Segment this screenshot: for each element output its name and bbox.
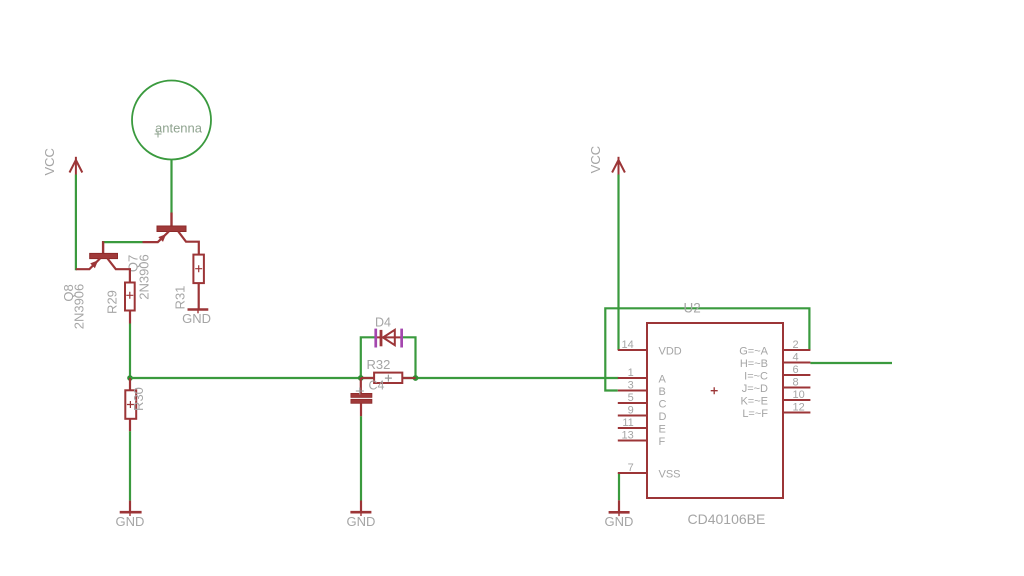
Q7 emitter arrow [158, 234, 166, 242]
resistor R32 [361, 373, 416, 383]
svg-text:1: 1 [628, 367, 634, 379]
wire C4 to ground [360, 416, 362, 500]
svg-text:4: 4 [793, 352, 799, 364]
wire VCC to Q8 emitter [75, 175, 77, 271]
svg-text:14: 14 [622, 339, 634, 351]
pin 12 L [742, 402, 810, 420]
svg-text:6: 6 [793, 364, 799, 376]
svg-text:G=~A: G=~A [739, 345, 768, 357]
svg-text:13: 13 [622, 430, 634, 442]
pin 8 J [742, 377, 811, 395]
Q8 base pin [102, 241, 104, 254]
transistor Q8 [76, 253, 130, 282]
pin 11 E [618, 417, 666, 435]
svg-text:U2: U2 [684, 301, 701, 316]
VCC symbol left [70, 157, 83, 175]
node junction D4 left [358, 375, 364, 381]
transistor Q7 [143, 213, 199, 255]
svg-text:C4: C4 [369, 378, 385, 392]
svg-text:2N3906: 2N3906 [137, 254, 152, 300]
svg-text:C: C [659, 398, 667, 410]
svg-text:K=~E: K=~E [740, 395, 768, 407]
wire R30 to ground [129, 431, 131, 500]
Q7 collector [178, 232, 199, 255]
svg-text:GND: GND [605, 514, 634, 529]
D4 pin 1 [374, 329, 377, 348]
resistor R30 [125, 378, 136, 431]
svg-text:11: 11 [622, 417, 633, 429]
svg-text:A: A [659, 373, 667, 385]
op-amp U1 IC box CD40106BE [647, 323, 783, 498]
antenna label [155, 121, 203, 138]
Q7 emitter [143, 232, 169, 243]
wire pin7 to ground [618, 473, 620, 500]
svg-text:5: 5 [628, 392, 634, 404]
svg-text:VCC: VCC [588, 146, 603, 173]
pin 5 C [618, 392, 667, 410]
pin 7 VSS [618, 462, 681, 480]
pin 1 A [618, 367, 667, 385]
Q8 collector [108, 259, 130, 283]
node junction D4 right [413, 375, 419, 381]
svg-text:I=~C: I=~C [744, 370, 768, 382]
svg-text:2N3906: 2N3906 [72, 284, 87, 330]
pin 2 G [739, 339, 810, 357]
svg-text:12: 12 [793, 402, 805, 414]
Q7 base pin [170, 213, 172, 228]
resistor R31 [193, 255, 204, 309]
pin 9 D [618, 405, 667, 423]
svg-text:R32: R32 [367, 357, 391, 372]
Q7 base bar [157, 226, 186, 232]
svg-text:10: 10 [793, 389, 805, 401]
svg-text:H=~B: H=~B [740, 358, 768, 370]
main wire [130, 377, 619, 379]
svg-text:D4: D4 [375, 315, 391, 329]
svg-text:8: 8 [793, 377, 799, 389]
wire D4 loop right [403, 337, 416, 378]
pin 3 B [618, 380, 666, 398]
node junction left [127, 375, 133, 381]
svg-text:R30: R30 [131, 387, 146, 411]
svg-text:B: B [659, 386, 666, 398]
svg-text:E: E [659, 423, 666, 435]
VCC symbol right [612, 157, 625, 175]
D4 pin 2 [400, 329, 403, 348]
svg-text:R31: R31 [172, 286, 187, 310]
Q8 base bar [90, 253, 118, 258]
capacitor C4 [351, 378, 372, 416]
wire R29 to main node [129, 324, 131, 379]
svg-text:J=~D: J=~D [742, 383, 768, 395]
antenna ANT1 circle [132, 81, 211, 160]
svg-text:VDD: VDD [659, 345, 682, 357]
pin 10 K [740, 389, 810, 407]
wire Q7 emitter to Q8 base [102, 241, 143, 243]
ground under pin 7 [609, 500, 630, 516]
wire pin4 output [810, 362, 892, 364]
svg-text:2: 2 [793, 339, 799, 351]
Q8 emitter arrow [90, 260, 98, 268]
wire antenna to Q7 base [170, 160, 172, 213]
svg-text:VCC: VCC [42, 148, 57, 175]
ground under R31 [188, 310, 209, 314]
ground under C4 [350, 501, 371, 517]
svg-text:9: 9 [628, 405, 634, 417]
svg-text:3: 3 [628, 380, 634, 392]
svg-text:VSS: VSS [659, 468, 681, 480]
svg-text:antenna: antenna [155, 121, 203, 136]
svg-text:CD40106BE: CD40106BE [688, 511, 766, 527]
diode D4 [374, 329, 403, 348]
ground under R30 [120, 501, 142, 516]
svg-text:L=~F: L=~F [742, 408, 768, 420]
resistor R29 [125, 283, 135, 324]
wire D4 loop left [361, 337, 375, 378]
Q8 emitter [76, 259, 100, 270]
svg-text:GND: GND [182, 311, 211, 326]
svg-text:GND: GND [346, 514, 375, 529]
pin 13 F [618, 430, 666, 448]
svg-text:F: F [659, 436, 666, 448]
pin 14 VDD [618, 339, 682, 357]
pin 6 I [744, 364, 810, 382]
svg-text:D: D [659, 411, 667, 423]
pin 4 H [740, 352, 811, 370]
wire pin3 to pin2 over IC [605, 308, 809, 390]
U2 origin cross [711, 387, 718, 394]
svg-text:7: 7 [628, 462, 634, 474]
svg-text:R29: R29 [105, 290, 120, 314]
wire VCC to pin 14 [617, 175, 619, 351]
svg-text:GND: GND [116, 514, 145, 529]
